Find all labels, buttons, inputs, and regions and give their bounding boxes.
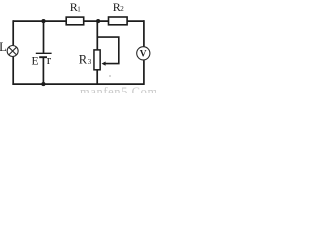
node junction on bottom rail (battery branch) xyxy=(41,82,45,86)
svg-text:L: L xyxy=(0,40,7,54)
node junction on top rail (R3 branch) xyxy=(96,19,100,23)
resistor R2 xyxy=(109,17,128,25)
svg-text:E: E xyxy=(32,55,39,68)
wire left rail xyxy=(12,20,14,85)
wire bottom rail xyxy=(12,83,144,85)
svg-text:3: 3 xyxy=(88,58,92,66)
voltmeter V xyxy=(137,47,150,60)
label r xyxy=(47,52,52,67)
resistor R1 xyxy=(66,17,84,25)
battery short plate xyxy=(39,56,47,58)
rheostat slider arrowhead xyxy=(102,62,106,66)
svg-text:1: 1 xyxy=(77,5,81,13)
label R1 xyxy=(70,0,81,14)
wire R3 bottom lead xyxy=(96,70,98,84)
node junction on top rail (battery branch) xyxy=(41,19,45,23)
battery E r xyxy=(36,21,52,84)
svg-text:r: r xyxy=(47,52,52,67)
wire right rail xyxy=(143,20,145,85)
wire R3 top lead xyxy=(96,21,98,49)
svg-text:manfen5.Com: manfen5.Com xyxy=(80,85,156,93)
wire rheostat slider loop xyxy=(97,37,119,64)
wire battery top lead xyxy=(43,21,45,53)
svg-text:2: 2 xyxy=(120,5,124,13)
svg-text:V: V xyxy=(140,50,147,60)
watermark speck xyxy=(109,75,111,77)
label R3 xyxy=(79,53,92,67)
label L xyxy=(0,40,7,54)
lamp L xyxy=(7,46,18,57)
wire top rail xyxy=(13,20,145,22)
watermark manfen5.Com xyxy=(80,85,158,99)
rheostat R3 xyxy=(94,21,100,84)
label R2 xyxy=(113,0,125,14)
wire battery bottom lead xyxy=(42,57,44,84)
label E xyxy=(32,55,39,68)
svg-text:R: R xyxy=(79,53,88,67)
battery long plate xyxy=(36,52,52,54)
